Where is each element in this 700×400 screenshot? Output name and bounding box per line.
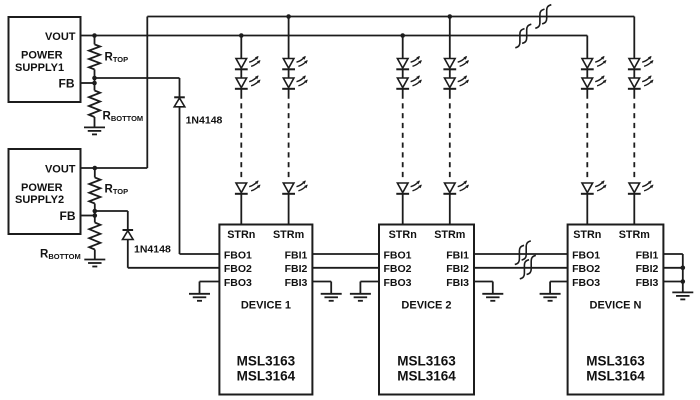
svg-text:SUPPLY1: SUPPLY1	[15, 62, 64, 74]
svg-text:FBI2: FBI2	[636, 263, 659, 275]
svg-text:POWER: POWER	[21, 182, 63, 194]
svg-text:FBI2: FBI2	[446, 263, 469, 275]
svg-text:FBO3: FBO3	[384, 277, 412, 289]
svg-text:DEVICE 1: DEVICE 1	[241, 300, 291, 312]
svg-text:MSL3164: MSL3164	[237, 369, 296, 384]
svg-text:STRn: STRn	[573, 229, 601, 241]
svg-text:STRn: STRn	[227, 229, 255, 241]
svg-text:STRm: STRm	[434, 229, 465, 241]
svg-text:VOUT: VOUT	[45, 164, 76, 176]
svg-text:POWER: POWER	[21, 50, 63, 62]
svg-text:MSL3163: MSL3163	[397, 354, 456, 369]
svg-text:FBI3: FBI3	[636, 277, 659, 289]
svg-text:FBO3: FBO3	[224, 277, 252, 289]
svg-text:1N4148: 1N4148	[134, 244, 171, 256]
svg-text:VOUT: VOUT	[45, 31, 76, 43]
svg-text:MSL3163: MSL3163	[237, 354, 296, 369]
svg-text:FB: FB	[59, 77, 75, 91]
svg-text:1N4148: 1N4148	[186, 115, 223, 127]
svg-text:MSL3164: MSL3164	[586, 369, 645, 384]
svg-text:SUPPLY2: SUPPLY2	[15, 194, 64, 206]
svg-text:DEVICE N: DEVICE N	[590, 300, 642, 312]
svg-text:FBI1: FBI1	[285, 249, 308, 261]
svg-text:FBI3: FBI3	[446, 277, 469, 289]
svg-text:FBI3: FBI3	[285, 277, 308, 289]
svg-text:FBI1: FBI1	[636, 249, 659, 261]
svg-text:STRm: STRm	[619, 229, 650, 241]
svg-text:MSL3164: MSL3164	[397, 369, 456, 384]
svg-text:FBI2: FBI2	[285, 263, 308, 275]
svg-text:STRm: STRm	[273, 229, 304, 241]
svg-text:FBO2: FBO2	[224, 263, 252, 275]
svg-text:FBI1: FBI1	[446, 249, 469, 261]
svg-text:FBO1: FBO1	[224, 249, 252, 261]
svg-text:FBO1: FBO1	[572, 249, 600, 261]
svg-text:MSL3163: MSL3163	[586, 354, 645, 369]
svg-text:FBO1: FBO1	[384, 249, 412, 261]
svg-text:FBO2: FBO2	[384, 263, 412, 275]
svg-text:FBO2: FBO2	[572, 263, 600, 275]
svg-text:FB: FB	[60, 209, 76, 223]
svg-text:DEVICE 2: DEVICE 2	[401, 300, 451, 312]
svg-text:STRn: STRn	[389, 229, 417, 241]
svg-text:FBO3: FBO3	[572, 277, 600, 289]
